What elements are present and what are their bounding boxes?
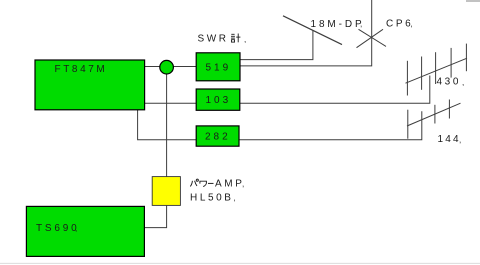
svg-text:,: , (459, 136, 461, 145)
svg-text:,: , (411, 20, 413, 29)
svg-text:AMP: AMP (215, 178, 244, 189)
svg-text:103: 103 (206, 95, 232, 106)
svg-text:18M-DP: 18M-DP (311, 19, 365, 30)
svg-text:,: , (462, 78, 464, 87)
svg-text:TS690: TS690 (36, 223, 79, 234)
svg-text:282: 282 (205, 132, 231, 143)
svg-text:SWR: SWR (198, 34, 229, 45)
svg-text:,: , (360, 20, 362, 29)
svg-text:,: , (242, 180, 244, 189)
svg-text:430: 430 (437, 77, 462, 88)
svg-text:HL50B: HL50B (190, 192, 234, 203)
svg-text:,: , (244, 35, 246, 44)
svg-text:CP6: CP6 (386, 19, 413, 30)
svg-text:144: 144 (438, 134, 461, 145)
svg-text:,: , (234, 194, 236, 203)
svg-text:519: 519 (206, 62, 232, 73)
svg-text:FT847M: FT847M (55, 64, 108, 75)
svg-text:,: , (75, 224, 77, 233)
